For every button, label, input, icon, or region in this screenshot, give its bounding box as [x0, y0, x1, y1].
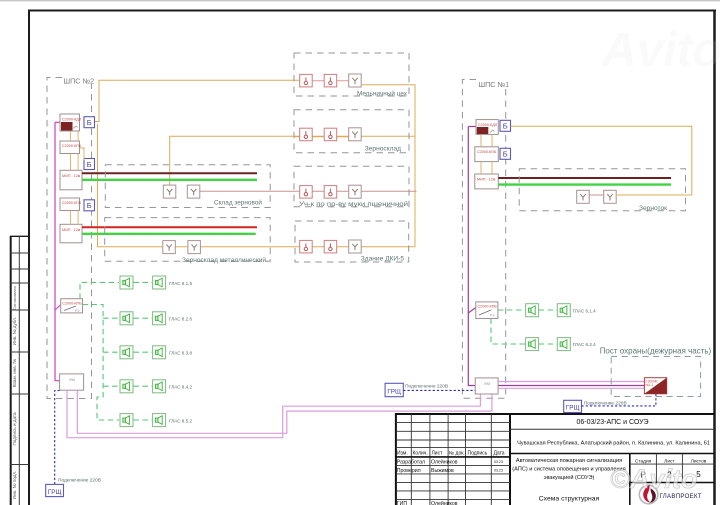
svg-text:03.23: 03.23: [494, 460, 503, 464]
svg-text:ГЛАС 6.2.4: ГЛАС 6.2.4: [573, 342, 596, 347]
sounder (зерносклад метал 1): [163, 241, 176, 254]
svg-text:Подпись: Подпись: [468, 450, 488, 456]
loudspeaker ГЛАС 8.4 pair: [120, 380, 133, 393]
svg-text:Пост охраны(дежурная часть): Пост охраны(дежурная часть): [600, 346, 712, 356]
svg-text:РЭ: РЭ: [75, 309, 80, 313]
detector (мельничный 1): [300, 74, 313, 87]
svg-text:Дата: Дата: [494, 450, 505, 456]
cabinet ШПС №1 dashed box: [462, 80, 505, 399]
wire speaker net (left branch) green dashed: [80, 282, 152, 420]
svg-text:Зерносклад металлический: Зерносклад металлический: [182, 256, 266, 264]
amplifier УМ (left): [60, 374, 84, 390]
cabinet ШПС №2 dashed box: [47, 78, 92, 399]
wire maroon pair to Склад зерновой: [82, 172, 257, 174]
sounder (ДКИ): [349, 240, 362, 253]
room box Пост охраны: [611, 357, 700, 397]
logo flame: [639, 485, 658, 504]
svg-text:РЭ: РЭ: [490, 314, 495, 318]
device С2000-КДЛ (panel 2): [60, 114, 82, 131]
svg-text:ШПС №2: ШПС №2: [64, 77, 95, 86]
amplifier УМ (right): [475, 378, 498, 394]
svg-text:Здание ДКИ-5: Здание ДКИ-5: [361, 255, 405, 262]
detector (ДКИ 2): [324, 240, 337, 253]
loudspeaker ГЛАС 8.1 pair: [120, 276, 133, 289]
svg-text:Зерноток: Зерноток: [639, 205, 667, 212]
wire loop row3 pale: [200, 190, 417, 192]
svg-text:Взам. инв. №: Взам. инв. №: [12, 359, 17, 388]
svg-text:Колич.: Колич.: [413, 450, 428, 456]
sounder (зерносклад): [349, 128, 362, 141]
svg-text:С2000-КПБ: С2000-КПБ: [62, 201, 82, 205]
svg-text:Уч-к по пр-ву муки пшеничной: Уч-к по пр-ву муки пшеничной: [299, 200, 408, 208]
wire green to Зерноток: [498, 183, 671, 185]
room box Здание ДКИ-5: [295, 221, 409, 262]
side stamp outer border: [10, 236, 12, 505]
svg-text:Подключение 220В: Подключение 220В: [405, 383, 448, 389]
connection box ГРЩ (right): [564, 400, 582, 412]
svg-text:ГРЩ: ГРЩ: [566, 405, 580, 412]
room box Уч-к по пр-ву муки пшеничной: [294, 166, 409, 207]
svg-text:Склад зерновой: Склад зерновой: [214, 199, 262, 207]
svg-text:ГЛАВПРОЕКТ: ГЛАВПРОЕКТ: [660, 494, 702, 500]
wire green to Зерносклад метал.: [82, 233, 256, 235]
device МИП-12 №2 (panel 2): [60, 224, 82, 243]
wire maroon to Зерноток: [498, 177, 671, 179]
svg-text:С2000-КДЛ: С2000-КДЛ: [478, 123, 498, 127]
detector (зерносклад 1): [300, 128, 313, 141]
svg-text:Инв. № подл.: Инв. № подл.: [12, 471, 17, 500]
connection box ГРЩ (left): [46, 484, 64, 496]
svg-text:ГРЩ: ГРЩ: [48, 489, 62, 496]
wire DPLS orange loop (panel 2): [94, 80, 415, 247]
svg-text:Изм.: Изм.: [397, 450, 408, 456]
svg-text:ГИП: ГИП: [397, 501, 408, 505]
svg-text:ГЛАС 8.3.8: ГЛАС 8.3.8: [169, 351, 192, 356]
room box Зерносклад: [294, 110, 409, 153]
sounder (мельничный): [349, 74, 362, 87]
right part rows: [510, 428, 715, 430]
svg-text:Олейников: Олейников: [431, 500, 458, 505]
title block main divider: [509, 414, 511, 505]
svg-text:ГЛАС 8.1.5: ГЛАС 8.1.5: [169, 281, 192, 286]
wire DPLS orange loop (panel 1): [511, 126, 692, 195]
svg-text:С2000-КПБ: С2000-КПБ: [478, 305, 498, 309]
sounder (уч-к): [349, 185, 362, 198]
wire speaker pair pink А: [67, 390, 480, 438]
room box Склад зерновой: [105, 165, 270, 208]
svg-text:С2000-КПБ: С2000-КПБ: [477, 150, 497, 154]
svg-text:Лист: Лист: [432, 450, 444, 456]
svg-text:ШПС №1: ШПС №1: [479, 80, 510, 89]
device С2000-КПБ (panel 1): [475, 147, 499, 162]
device С2000-КПБ СОУЭ (left): [61, 299, 83, 313]
room box Зерноток: [519, 169, 685, 211]
svg-text:03.23: 03.23: [494, 469, 503, 473]
svg-text:Мельничный цех: Мельничный цех: [357, 90, 408, 98]
sounder (склад зерновой 2): [187, 185, 200, 198]
svg-text:С2000-КПБ: С2000-КПБ: [62, 144, 82, 148]
device МИП-12 (panel 1): [475, 174, 499, 189]
svg-text:Согласовано: Согласовано: [12, 285, 17, 310]
sounder (зерносклад метал 2): [188, 241, 201, 254]
svg-text:©Avito: ©Avito: [610, 464, 697, 494]
svg-text:ГЛАС 8.4.2: ГЛАС 8.4.2: [169, 385, 192, 390]
svg-text:ГЛАС 6.1.4: ГЛАС 6.1.4: [573, 308, 596, 313]
svg-text:06-03/23-АПС и СОУЭ: 06-03/23-АПС и СОУЭ: [577, 419, 649, 426]
svg-text:№1-1: №1-1: [645, 383, 653, 387]
svg-text:Чувашская Республика, Алатырск: Чувашская Республика, Алатырский район, …: [517, 439, 710, 446]
device С2000-КДЛ (panel 1): [476, 120, 498, 135]
detector (уч-к 1): [300, 186, 313, 199]
wire loop row1 through detectors: [299, 80, 350, 82]
wire interconnects panel1: [481, 134, 500, 174]
svg-text:ГЛАС 8.5.2: ГЛАС 8.5.2: [169, 418, 192, 423]
title block top border: [395, 413, 715, 415]
wire green to Склад зерновой: [82, 179, 257, 181]
svg-text:ГРЩ: ГРЩ: [387, 388, 401, 395]
battery Б1 (panel 2): [84, 117, 95, 128]
wire RS-485 magenta trunk: [55, 122, 61, 380]
svg-text:ГЛАС 8.2.6: ГЛАС 8.2.6: [169, 317, 192, 322]
detector (уч-к 2): [324, 186, 337, 199]
room box Мельничный цех: [294, 53, 409, 96]
wire audio pink to С2000М: [498, 382, 644, 389]
svg-text:МИП - 12м: МИП - 12м: [62, 174, 81, 178]
loudspeaker ГЛАС 8.5 pair: [120, 414, 133, 427]
svg-text:Проверил: Проверил: [397, 468, 421, 474]
loudspeaker ГЛАС 8.2 pair: [120, 312, 133, 325]
svg-text:Avito: Avito: [601, 24, 720, 77]
svg-text:МИП - 12м: МИП - 12м: [62, 228, 81, 232]
revision table rows: [396, 422, 510, 424]
device МИП-12 (panel 2): [60, 170, 82, 190]
wire loop row2 through detectors: [294, 136, 362, 138]
svg-text:Схема структурная: Схема структурная: [539, 496, 600, 503]
battery Б3 (panel 2): [84, 200, 95, 211]
battery Б1 (panel 1): [500, 120, 511, 131]
battery Б2 (panel 2): [84, 159, 95, 170]
title block left border: [395, 413, 397, 505]
revision table columns: [410, 414, 412, 505]
svg-text:Автоматическая пожарная сигнал: Автоматическая пожарная сигнализация: [516, 458, 622, 464]
detector (ДКИ 1): [300, 240, 313, 253]
wire 220В blue to С2000М: [582, 394, 656, 406]
device С2000-КПБ №2 (panel 2): [60, 198, 82, 211]
svg-text:С2000-КДЛ: С2000-КДЛ: [62, 118, 82, 122]
device С2000-КПБ СОУЭ (right): [476, 302, 498, 319]
wire speaker net (right) green dashed: [491, 310, 557, 344]
svg-text:Инв. № дубл.: Инв. № дубл.: [12, 317, 17, 345]
loudspeaker ГЛАС 8.3 pair: [120, 346, 133, 359]
svg-text:Разработал: Разработал: [397, 459, 425, 465]
svg-text:УМ: УМ: [69, 377, 75, 382]
svg-text:эвакуацией (СОУЭ): эвакуацией (СОУЭ): [544, 474, 595, 481]
svg-text:УМ: УМ: [484, 381, 490, 386]
sounder (зерноток 2): [604, 190, 617, 203]
frame right border: [713, 10, 716, 505]
paper top edge: [0, 0, 720, 2]
wire RS-485 violet trunk (right): [468, 127, 644, 386]
side stamp cell lines: [10, 235, 29, 237]
loudspeaker ГЛАС 6.1 pair: [526, 304, 539, 317]
battery Б2 (panel 1): [500, 148, 511, 159]
wire speaker pair pink Б: [77, 390, 492, 433]
svg-text:(АПС) и система оповещения и у: (АПС) и система оповещения и управления: [512, 466, 625, 472]
control panel С2000М: [644, 378, 666, 394]
frame left border: [28, 10, 30, 505]
svg-text:Подключение 220В: Подключение 220В: [58, 478, 101, 484]
svg-text:Подпись и дата: Подпись и дата: [12, 412, 17, 445]
svg-text:Олейников: Олейников: [431, 458, 458, 465]
wire interconnects panel2: [70, 131, 84, 224]
detector (зерносклад 2): [324, 128, 337, 141]
svg-text:С2000-КПБ: С2000-КПБ: [62, 302, 82, 306]
svg-text:Зерносклад: Зерносклад: [365, 146, 401, 153]
wire sounder link (зерноток): [577, 194, 604, 196]
room box Зерносклад металлический: [105, 218, 271, 262]
svg-text:Выжимов: Выжимов: [431, 468, 454, 474]
svg-text:№ док.: № док.: [449, 450, 465, 456]
device С2000-КПБ (panel 2): [60, 141, 82, 154]
wire red pair to Зерносклад метал.: [82, 226, 257, 228]
wire 220В blue to УМ right: [403, 389, 475, 391]
sounder (зерноток 1): [577, 190, 590, 203]
side stamp inner divider: [18, 236, 20, 505]
detector (мельничный 2): [324, 74, 337, 87]
loudspeaker ГЛАС 6.2 pair: [526, 338, 539, 351]
svg-text:МИП - 12м: МИП - 12м: [477, 178, 496, 182]
connection box ГРЩ (middle): [385, 383, 403, 396]
frame top border: [28, 10, 716, 12]
sounder (склад зерновой 1): [163, 185, 176, 198]
wire 220В blue to УМ left: [55, 391, 60, 485]
